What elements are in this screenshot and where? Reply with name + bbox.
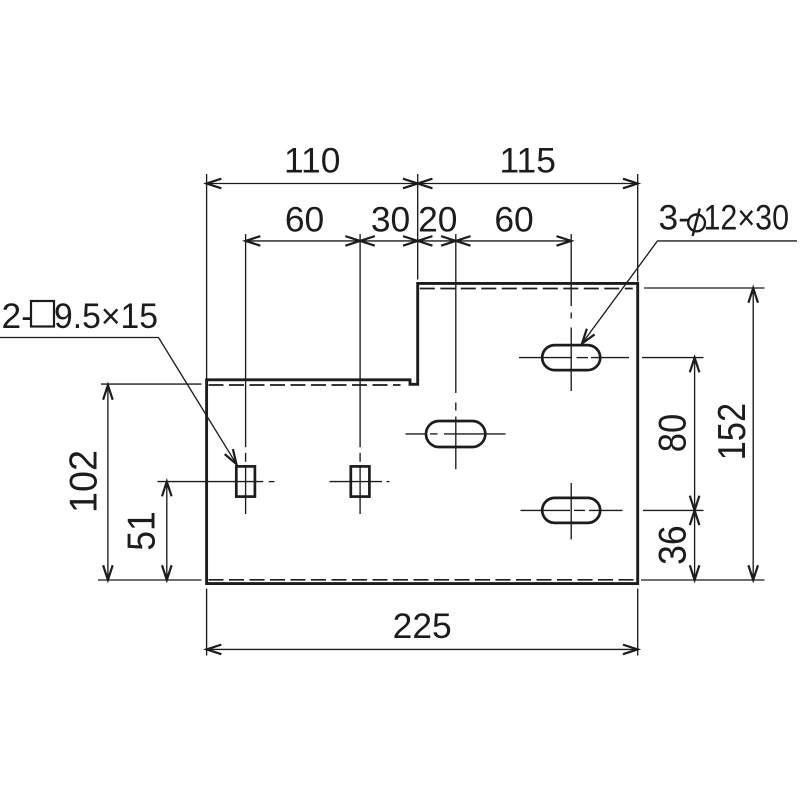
extension line 102 top [101,383,202,385]
bend line bottom (dashed) [209,579,636,581]
slot hole lower right (phi12x30) [542,498,600,523]
leader line for slots [582,241,797,344]
svg-text:60: 60 [494,200,533,240]
svg-text:20: 20 [418,200,457,240]
centerline lower slot vertical [570,483,572,540]
label square symbol [31,301,54,327]
svg-text:51: 51 [121,511,164,551]
square hole 1 (9.5x15) [236,466,255,496]
svg-text:60: 60 [285,200,324,240]
extension line 152 top [644,287,765,289]
extension line 152/36 bottom [641,579,765,581]
extension line 102/51 bottom [98,579,202,581]
svg-text:12×30: 12×30 [704,198,790,238]
extension line 225 right [637,589,639,656]
dimension line 51 [166,482,168,580]
svg-text:30: 30 [371,200,410,240]
svg-text:3-: 3- [659,198,690,238]
slot hole upper right (phi12x30) [542,345,600,370]
plate outline [207,283,638,583]
svg-text:36: 36 [652,525,695,565]
bend line top-left (dashed) [209,384,401,386]
extension line right edge up [637,174,639,282]
svg-text:110: 110 [284,140,340,180]
dimension line 152 [752,288,754,580]
phi symbol (circle+slash) [688,215,705,232]
svg-text:225: 225 [393,606,452,646]
centerline squares horizontal [158,481,264,483]
slot hole middle (phi12x30) [426,421,485,447]
centerline square2 vertical [359,234,361,447]
extension line 225 left [206,589,208,656]
svg-text:115: 115 [499,140,555,180]
svg-text:152: 152 [711,403,754,461]
centerline middle slot horizontal [406,433,427,435]
leader line for squares [0,338,237,465]
svg-text:2-: 2- [2,296,33,336]
svg-text:9.5×15: 9.5×15 [54,296,158,336]
extension line step up [417,174,419,280]
svg-text:80: 80 [652,414,695,453]
bend line top-right (dashed) [420,288,633,290]
centerline upper slot horizontal [519,357,572,359]
extension line left edge up [206,174,208,379]
dimension line 36 [694,510,696,580]
centerline square1 vertical [245,234,247,447]
svg-text:102: 102 [63,450,106,513]
dimension line 225 [207,648,638,650]
dimension line 80 [694,358,696,511]
centerline middle slot vertical [455,234,457,393]
centerline upper slot vertical [570,234,572,306]
square hole 2 (9.5x15) [351,466,370,496]
dimension line 60/30/20/60 [246,240,572,242]
centerline lower slot horizontal [521,509,571,511]
dimension line 110/115 [207,183,638,185]
dimension line 102 [107,385,109,580]
